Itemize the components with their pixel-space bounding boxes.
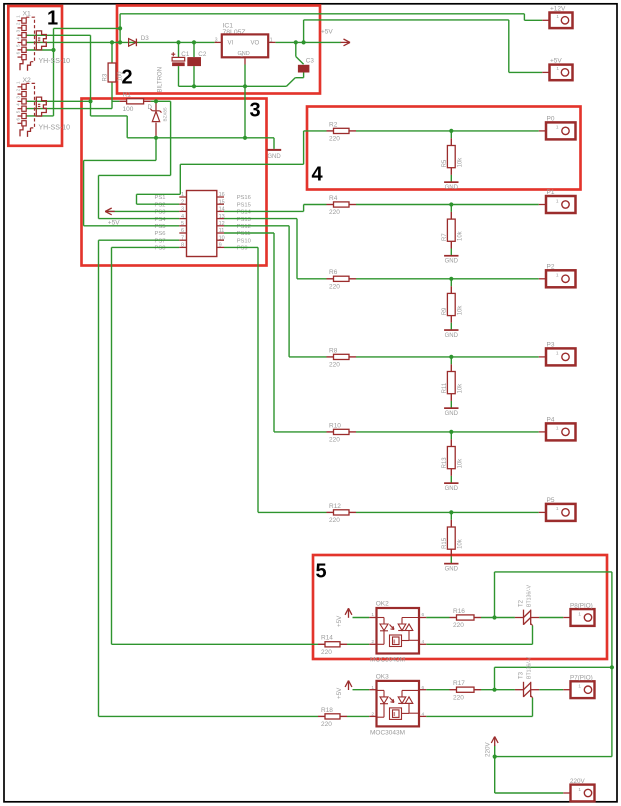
- svg-text:GND: GND: [445, 567, 459, 573]
- svg-text:VO: VO: [251, 40, 260, 46]
- svg-text:VI: VI: [228, 40, 234, 46]
- svg-text:+5V: +5V: [321, 29, 333, 36]
- svg-text:2: 2: [241, 53, 244, 58]
- svg-text:220: 220: [329, 517, 340, 524]
- svg-text:R3: R3: [102, 73, 108, 81]
- svg-text:T3: T3: [519, 671, 525, 679]
- svg-text:+12V: +12V: [550, 6, 566, 13]
- svg-text:PS13: PS13: [237, 217, 251, 223]
- svg-text:4: 4: [16, 103, 21, 106]
- svg-text:P0: P0: [547, 115, 555, 122]
- svg-text:P3: P3: [547, 341, 555, 348]
- svg-text:PS16: PS16: [237, 195, 251, 201]
- svg-text:OK3: OK3: [376, 673, 389, 680]
- svg-text:R18: R18: [321, 707, 333, 714]
- svg-text:YH-SS-10: YH-SS-10: [39, 58, 71, 65]
- svg-text:4: 4: [422, 639, 425, 645]
- svg-text:220: 220: [329, 437, 340, 444]
- svg-text:220: 220: [329, 283, 340, 290]
- svg-text:1: 1: [371, 612, 374, 618]
- svg-text:BZX85: BZX85: [163, 107, 168, 121]
- svg-text:5: 5: [16, 110, 21, 113]
- svg-text:R8: R8: [329, 347, 338, 354]
- svg-text:5: 5: [316, 561, 327, 583]
- svg-text:3: 3: [16, 29, 21, 32]
- svg-text:‖: ‖: [393, 712, 395, 718]
- svg-text:PS5: PS5: [155, 224, 166, 230]
- svg-text:2: 2: [16, 22, 21, 25]
- svg-text:D3: D3: [141, 35, 150, 42]
- svg-text:1: 1: [578, 684, 581, 690]
- svg-text:X2: X2: [23, 77, 32, 84]
- svg-text:1: 1: [556, 14, 559, 20]
- svg-text:1: 1: [270, 37, 273, 43]
- svg-text:PS4: PS4: [155, 217, 167, 223]
- svg-text:5: 5: [16, 44, 21, 47]
- svg-text:1: 1: [16, 81, 21, 84]
- svg-text:R9: R9: [442, 307, 448, 315]
- svg-text:PS12: PS12: [237, 224, 251, 230]
- svg-text:P2: P2: [547, 263, 555, 270]
- svg-text:X1: X1: [23, 11, 32, 18]
- svg-text:1: 1: [556, 198, 559, 204]
- svg-text:220: 220: [329, 362, 340, 369]
- svg-text:MOC3043M: MOC3043M: [370, 657, 405, 664]
- svg-text:10k: 10k: [458, 458, 464, 469]
- svg-text:P5: P5: [547, 497, 555, 504]
- svg-text:R13: R13: [442, 457, 448, 469]
- svg-text:3: 3: [250, 100, 261, 122]
- svg-text:GND: GND: [267, 154, 281, 160]
- svg-text:R6: R6: [329, 269, 338, 276]
- svg-text:10k: 10k: [458, 383, 464, 394]
- svg-text:+5V: +5V: [336, 615, 343, 627]
- svg-text:R10: R10: [329, 422, 341, 429]
- svg-text:6: 6: [422, 685, 425, 691]
- svg-text:1: 1: [371, 685, 374, 691]
- svg-text:100: 100: [123, 106, 134, 113]
- svg-text:R5: R5: [442, 159, 448, 167]
- svg-text:PS7: PS7: [155, 238, 166, 244]
- svg-text:220: 220: [321, 721, 332, 728]
- svg-text:220: 220: [321, 649, 332, 656]
- svg-text:10k: 10k: [458, 538, 464, 549]
- svg-text:‖: ‖: [393, 639, 395, 645]
- svg-text:PS6: PS6: [155, 231, 166, 237]
- svg-text:1: 1: [556, 426, 559, 432]
- svg-text:GND: GND: [445, 333, 459, 339]
- svg-text:PS9: PS9: [237, 246, 248, 252]
- svg-text:6: 6: [16, 51, 21, 54]
- svg-text:R14: R14: [321, 635, 333, 642]
- svg-text:220V: 220V: [485, 741, 492, 757]
- svg-text:GND: GND: [445, 185, 459, 191]
- svg-text:6: 6: [16, 118, 21, 121]
- svg-text:10k: 10k: [458, 305, 464, 316]
- svg-text:YH-SS-10: YH-SS-10: [39, 124, 71, 131]
- svg-text:3: 3: [215, 37, 218, 43]
- svg-text:220: 220: [453, 694, 464, 701]
- svg-text:PS1: PS1: [155, 195, 166, 201]
- svg-text:220V: 220V: [570, 778, 586, 785]
- svg-text:R17: R17: [453, 680, 465, 687]
- svg-text:R4: R4: [329, 195, 338, 202]
- svg-text:1: 1: [47, 8, 58, 30]
- svg-text:OK2: OK2: [376, 601, 389, 608]
- svg-text:R1: R1: [123, 92, 132, 99]
- svg-text:220: 220: [329, 209, 340, 216]
- svg-text:10k: 10k: [458, 157, 464, 168]
- svg-text:MOC3043M: MOC3043M: [370, 729, 405, 736]
- svg-text:R7: R7: [442, 233, 448, 241]
- svg-text:P8(PIO): P8(PIO): [570, 602, 593, 609]
- svg-text:GND: GND: [445, 411, 459, 417]
- svg-text:1: 1: [556, 125, 559, 131]
- svg-text:220: 220: [329, 136, 340, 143]
- svg-text:GND: GND: [238, 51, 250, 57]
- svg-text:P7(PIO): P7(PIO): [570, 675, 593, 682]
- svg-text:2: 2: [16, 88, 21, 91]
- svg-text:T2: T2: [519, 599, 525, 607]
- svg-text:220: 220: [453, 622, 464, 629]
- svg-text:GND: GND: [445, 486, 459, 492]
- svg-text:2: 2: [122, 67, 133, 89]
- svg-text:10k: 10k: [458, 230, 464, 241]
- svg-text:1: 1: [578, 612, 581, 618]
- svg-text:2: 2: [371, 639, 374, 645]
- svg-text:PS11: PS11: [237, 231, 251, 237]
- svg-text:GND: GND: [445, 259, 459, 265]
- svg-text:R12: R12: [329, 503, 341, 510]
- svg-text:+5V: +5V: [550, 58, 562, 65]
- svg-text:4: 4: [312, 164, 324, 186]
- svg-text:4: 4: [422, 712, 425, 718]
- svg-text:2: 2: [371, 712, 374, 718]
- svg-text:+5V: +5V: [108, 219, 120, 226]
- svg-text:R2: R2: [329, 121, 338, 128]
- svg-text:1: 1: [556, 351, 559, 357]
- svg-text:R11: R11: [442, 382, 448, 393]
- svg-text:PS14: PS14: [237, 210, 252, 216]
- svg-text:BT136/-V: BT136/-V: [527, 657, 533, 679]
- svg-text:R15: R15: [442, 537, 448, 549]
- svg-text:1: 1: [556, 506, 559, 512]
- svg-text:+5V: +5V: [336, 687, 343, 699]
- svg-text:1: 1: [578, 787, 581, 793]
- svg-text:1: 1: [556, 66, 559, 72]
- svg-text:P4: P4: [547, 416, 555, 423]
- svg-text:P1: P1: [547, 189, 555, 196]
- svg-text:PS8: PS8: [155, 246, 166, 252]
- svg-text:PS15: PS15: [237, 202, 251, 208]
- svg-text:1: 1: [16, 15, 21, 18]
- svg-text:PS2: PS2: [155, 202, 166, 208]
- svg-text:PS3: PS3: [155, 210, 166, 216]
- svg-text:C3: C3: [306, 58, 315, 65]
- svg-text:BT136/-V: BT136/-V: [527, 585, 533, 607]
- svg-text:R16: R16: [453, 608, 465, 615]
- svg-text:BILTRON: BILTRON: [158, 67, 164, 93]
- svg-text:1: 1: [556, 273, 559, 279]
- svg-text:6: 6: [422, 612, 425, 618]
- svg-text:4: 4: [16, 37, 21, 40]
- svg-text:PS10: PS10: [237, 238, 251, 244]
- svg-text:3: 3: [16, 96, 21, 99]
